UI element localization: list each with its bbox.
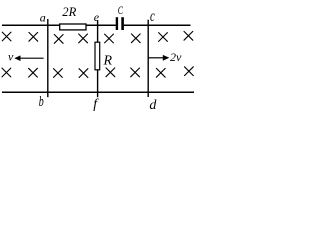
rod cd xyxy=(147,20,149,97)
velocity arrow 2v (rightward) xyxy=(148,55,169,61)
rod ef wire xyxy=(97,20,99,97)
rod ab xyxy=(47,19,49,97)
svg-text:e: e xyxy=(94,10,100,24)
svg-text:v: v xyxy=(8,50,14,64)
capacitor C left plate xyxy=(116,17,118,30)
resistor 2R xyxy=(60,24,86,30)
svg-text:d: d xyxy=(149,98,157,113)
capacitor C right plate xyxy=(121,17,124,30)
svg-text:2v: 2v xyxy=(170,50,182,64)
top rail right segment xyxy=(124,24,191,26)
svg-text:R: R xyxy=(103,54,113,69)
magnetic field region: B into page (x symbols) xyxy=(2,31,193,77)
svg-text:2R: 2R xyxy=(62,5,76,19)
svg-text:a: a xyxy=(40,11,46,25)
resistor R xyxy=(95,42,100,70)
top rail left segment xyxy=(2,24,116,26)
velocity arrow v (leftward) xyxy=(14,55,43,61)
svg-text:c: c xyxy=(150,8,155,25)
bottom rail xyxy=(2,91,194,93)
svg-text:f: f xyxy=(93,97,99,112)
svg-text:C: C xyxy=(118,5,123,17)
svg-text:b: b xyxy=(39,94,44,110)
